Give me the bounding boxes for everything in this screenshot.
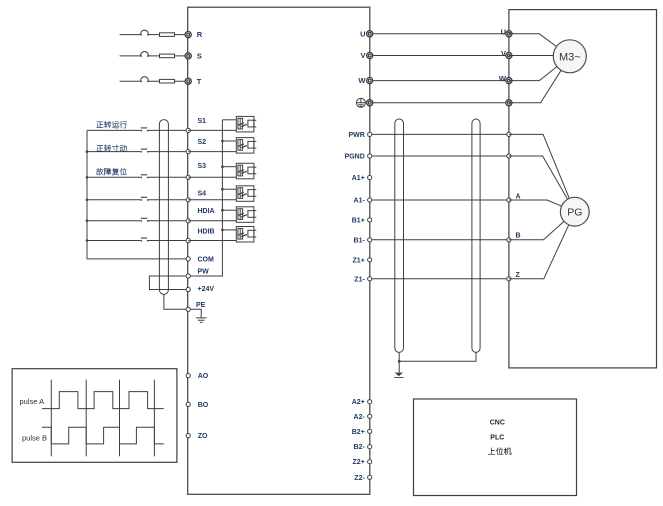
shielded-cable loop (left control cable) (159, 120, 168, 295)
opto common bus wire to PW (190, 120, 223, 276)
wire PGND to encoder box (370, 155, 509, 157)
label 上位机 (host computer) (488, 448, 511, 455)
svg-text:PG: PG (567, 207, 582, 219)
svg-text:V: V (360, 51, 365, 60)
switch contact on S1 line (140, 128, 148, 132)
opto-coupler for S3 (188, 163, 256, 179)
svg-text:B1-: B1- (354, 237, 366, 244)
svg-text:S2: S2 (198, 139, 207, 146)
label pulse B (22, 434, 47, 443)
terminal B (encoder box side) (507, 233, 521, 242)
wire S1 input line (87, 129, 186, 131)
wire PE to motor box (370, 102, 509, 104)
svg-text:A2-: A2- (354, 414, 366, 421)
wire S4 input line (87, 199, 186, 201)
terminal PGND (345, 154, 372, 161)
waveform pulse B (42, 427, 164, 444)
svg-text:Z1-: Z1- (354, 276, 365, 283)
encoder lead B (509, 221, 564, 240)
terminal Z2+ (353, 459, 372, 466)
motor/encoder enclosure box (509, 10, 657, 368)
terminal HDIA (186, 208, 215, 223)
terminal B1+ (352, 217, 372, 224)
svg-text:W: W (358, 76, 366, 85)
svg-text:B2+: B2+ (352, 429, 365, 436)
terminal PE (motor box, ring) (506, 100, 512, 106)
input phase R: wire, breaker contact, fuse FR (120, 30, 186, 36)
wire S3 input line (87, 176, 186, 178)
terminal AO (186, 373, 209, 380)
terminal Z (encoder box side) (507, 272, 521, 281)
terminal Z1- (354, 276, 372, 283)
terminal V (motor box, ring) (501, 49, 512, 59)
encoder lead PGND (509, 156, 568, 199)
svg-text:PE: PE (196, 302, 206, 309)
svg-text:S3: S3 (198, 163, 207, 170)
waveform pulse A (42, 392, 164, 409)
svg-text:S: S (197, 52, 202, 61)
encoder PG (560, 197, 589, 226)
terminal Z1+ (353, 257, 372, 264)
jumper wire PW to +24V (149, 276, 186, 290)
svg-text:V: V (501, 49, 506, 58)
svg-text:A1-: A1- (354, 198, 366, 205)
label pulse A (20, 397, 45, 406)
wire A1- to encoder box (370, 199, 509, 201)
terminal B2+ (352, 429, 372, 436)
wire HDIA input line (87, 220, 186, 222)
svg-text:W: W (499, 74, 507, 83)
svg-text:+24V: +24V (198, 286, 215, 293)
terminal PW (186, 268, 209, 278)
terminal ZO (186, 433, 208, 440)
terminal PGND (encoder box side) (507, 154, 511, 158)
label CNC (490, 420, 505, 427)
left common bus wire (digital inputs to COM) (86, 130, 187, 259)
terminal A (encoder box side) (507, 194, 521, 203)
svg-text:PW: PW (198, 268, 210, 275)
svg-text:Z: Z (516, 272, 521, 279)
svg-text:A2+: A2+ (352, 399, 365, 406)
svg-text:Z2+: Z2+ (353, 459, 365, 466)
motor lead W (509, 67, 557, 81)
svg-text:pulse A: pulse A (20, 397, 45, 406)
terminal B1- (354, 237, 372, 244)
svg-text:pulse B: pulse B (22, 434, 47, 443)
phase marker lines (51, 380, 154, 457)
opto-coupler for S4 (188, 186, 256, 202)
terminal A1- (354, 198, 372, 205)
svg-text:A1+: A1+ (352, 175, 365, 182)
drive (inverter) enclosure box (188, 7, 370, 494)
svg-text:AO: AO (198, 373, 209, 380)
wire HDIB input line (87, 240, 186, 242)
svg-text:CNC: CNC (490, 420, 505, 427)
switch contact on HDIA line (140, 218, 148, 222)
svg-text:ZO: ZO (198, 433, 208, 440)
terminal V (drive, ring) (360, 51, 372, 60)
wire U to motor box (370, 33, 509, 35)
earth ground symbol at PE (190, 309, 206, 322)
label PLC (490, 434, 504, 441)
motor lead PE (509, 70, 561, 103)
terminal B2- (354, 444, 372, 451)
svg-text:U: U (360, 29, 365, 38)
encoder lead PWR (509, 134, 569, 198)
input phase T: wire, breaker contact, fuse FT (120, 77, 186, 83)
terminal A2+ (352, 399, 372, 406)
svg-text:B: B (516, 233, 521, 240)
svg-text:BO: BO (198, 402, 209, 409)
terminal S4 (186, 191, 206, 202)
label 正转运行 (forward run) (97, 121, 127, 128)
wire W to motor box (370, 80, 509, 82)
terminal U (motor box, ring) (501, 27, 512, 37)
encoder lead A (509, 200, 562, 206)
opto-coupler for S2 (188, 138, 256, 154)
input phase S: wire, breaker contact, fuse FS (120, 51, 186, 57)
switch contact on HDIB line (140, 238, 148, 242)
shielded-cable loop 1 (motor cable) (395, 119, 404, 352)
terminal W (motor box, ring) (499, 74, 512, 84)
wire S2 input line (87, 151, 186, 153)
switch contact on S3 line (140, 175, 148, 179)
svg-text:COM: COM (198, 257, 215, 264)
svg-text:S1: S1 (198, 118, 207, 125)
label 正转寸动 (forward jog) (97, 145, 127, 152)
svg-text:U: U (501, 27, 506, 36)
opto-coupler for S1 (188, 116, 256, 131)
wire B1- to encoder box (370, 239, 509, 241)
terminal A2- (354, 414, 372, 421)
terminal HDIB (186, 229, 215, 243)
svg-text:R: R (197, 30, 203, 39)
svg-text:Z1+: Z1+ (353, 257, 365, 264)
svg-text:HDIA: HDIA (198, 208, 215, 215)
switch contact on S4 line (140, 197, 148, 201)
terminal PE (drive, ring with earth mark) (356, 98, 372, 107)
svg-text:Z2-: Z2- (354, 475, 365, 482)
svg-text:B2-: B2- (354, 444, 366, 451)
terminal S2 (186, 139, 206, 154)
motor lead V (509, 55, 553, 57)
svg-text:S4: S4 (198, 191, 207, 198)
wire Z1- to encoder box (370, 278, 509, 280)
terminal BO (186, 402, 209, 409)
terminal PWR (348, 132, 371, 139)
svg-text:PGND: PGND (345, 154, 365, 161)
label 故障复位 (fault reset) (96, 168, 126, 175)
terminal S3 (186, 163, 206, 179)
terminal U (drive, ring) (360, 29, 373, 38)
pulse waveform box (12, 369, 177, 463)
terminal COM (186, 257, 214, 264)
terminal Z2- (354, 475, 372, 482)
wire PWR to encoder box (370, 133, 509, 135)
terminal T (ring) (185, 77, 202, 86)
shield drain wires joining (398, 352, 476, 362)
svg-text:PWR: PWR (348, 132, 364, 139)
terminal +24V (186, 286, 214, 293)
switch contact on S2 line (140, 149, 148, 153)
opto-coupler for HDIA (188, 207, 256, 223)
wire V to motor box (370, 55, 509, 57)
motor M3~ (553, 40, 586, 73)
terminal PE (186, 302, 206, 311)
terminal W (drive, ring) (358, 76, 372, 85)
terminal S (ring) (185, 52, 202, 61)
terminal PWR (encoder box side) (507, 132, 511, 136)
svg-text:M3~: M3~ (559, 51, 581, 63)
chassis ground symbol (394, 361, 403, 377)
motor lead U (509, 34, 557, 47)
shield drain wire to PE (164, 294, 186, 309)
terminal A1+ (352, 175, 372, 182)
svg-text:B1+: B1+ (352, 217, 365, 224)
terminal R (ring) (185, 30, 203, 39)
terminal S1 (186, 118, 206, 133)
svg-text:A: A (516, 194, 521, 201)
svg-text:PLC: PLC (490, 434, 504, 441)
svg-text:T: T (197, 77, 202, 86)
svg-text:HDIB: HDIB (198, 229, 215, 236)
encoder lead Z (509, 225, 569, 279)
CNC / PLC host box (414, 399, 577, 496)
opto-coupler for HDIB (188, 227, 256, 243)
shielded-cable loop 2 (encoder cable) (472, 119, 480, 352)
